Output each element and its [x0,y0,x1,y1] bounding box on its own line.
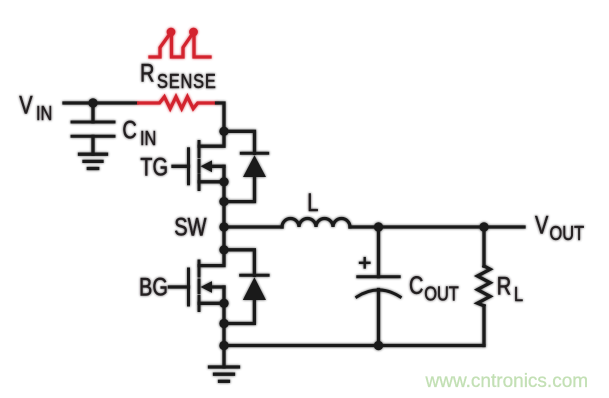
ground (CIN) [80,154,107,168]
inductor L [282,219,350,228]
wire top rail corner to TG drain [199,103,224,146]
capacitor COUT plus sign [360,258,369,267]
node BG source [219,299,228,308]
wire bottom rail [224,344,484,347]
svg-text:L: L [307,189,318,217]
capacitor COUT [357,277,400,297]
capacitor CIN [72,122,114,136]
svg-text:R: R [140,59,154,87]
transistor BG (bottom gate NMOS) [169,261,224,311]
transistor TG (top gate NMOS) [173,142,224,190]
svg-text:OUT: OUT [424,282,459,305]
wire RL bottom lead [482,306,485,346]
svg-text:R: R [497,272,511,300]
svg-text:L: L [514,282,523,305]
wire rail BG source to ground rail [222,303,225,345]
wire ground lead [222,346,225,368]
svg-text:www.cntronics.com: www.cntronics.com [425,371,589,392]
wire RL top lead [482,227,485,266]
TG body-source link [222,166,225,182]
inductor current pulse icon [150,28,210,57]
TG source stub [199,180,224,183]
svg-text:IN: IN [140,126,156,149]
svg-text:OUT: OUT [550,221,585,244]
node SW [219,222,228,231]
svg-text:SENSE: SENSE [157,69,217,92]
TG gate lead [173,165,189,168]
wire VIN lead [64,101,137,104]
node ground rail junction [219,341,228,350]
wire SW to inductor [224,225,282,228]
wire rail TG source to SW [222,182,225,227]
svg-text:SW: SW [174,213,207,241]
diode TG body diode [224,131,268,201]
wire inductor to VOUT [350,225,524,228]
wire COUT top lead [377,227,380,277]
wire rail SW to BG drain [199,227,224,266]
node COUT bottom [374,341,383,350]
svg-text:TG: TG [140,153,168,181]
node TG diode tap [219,127,228,136]
BG source stub [199,302,224,305]
label CIN [122,116,156,149]
node BG diode tap [219,245,228,254]
BG body-source link [222,287,225,303]
TG gate bar [187,149,190,184]
label VIN [19,91,52,124]
svg-text:BG: BG [139,273,168,301]
node VIN junction [88,98,97,107]
svg-text:C: C [122,116,136,144]
svg-text:V: V [535,211,548,239]
label VOUT [535,211,584,244]
label COUT [409,272,459,305]
svg-text:IN: IN [36,101,52,124]
label RL [497,272,523,305]
svg-text:C: C [409,272,423,300]
diode BG body diode [224,250,268,324]
node BG diode anode tap [219,319,228,328]
node COUT top [374,222,383,231]
wire CIN top lead [91,103,94,122]
BG body arrow [211,285,224,288]
wire CIN bottom lead [91,136,94,154]
resistor RSENSE [139,97,218,109]
BG gate bar [187,269,190,305]
TG body arrow [211,165,224,168]
node RL top [479,222,488,231]
wire COUT bottom lead [377,290,380,346]
BG gate lead [169,285,188,288]
node TG source [219,177,228,186]
label RSENSE [140,59,217,92]
node TG diode anode tap [219,197,228,206]
resistor RL [477,266,490,306]
TG channel bar [198,142,201,190]
ground (main) [210,367,239,381]
svg-text:V: V [19,91,32,119]
BG channel bar [198,261,201,311]
